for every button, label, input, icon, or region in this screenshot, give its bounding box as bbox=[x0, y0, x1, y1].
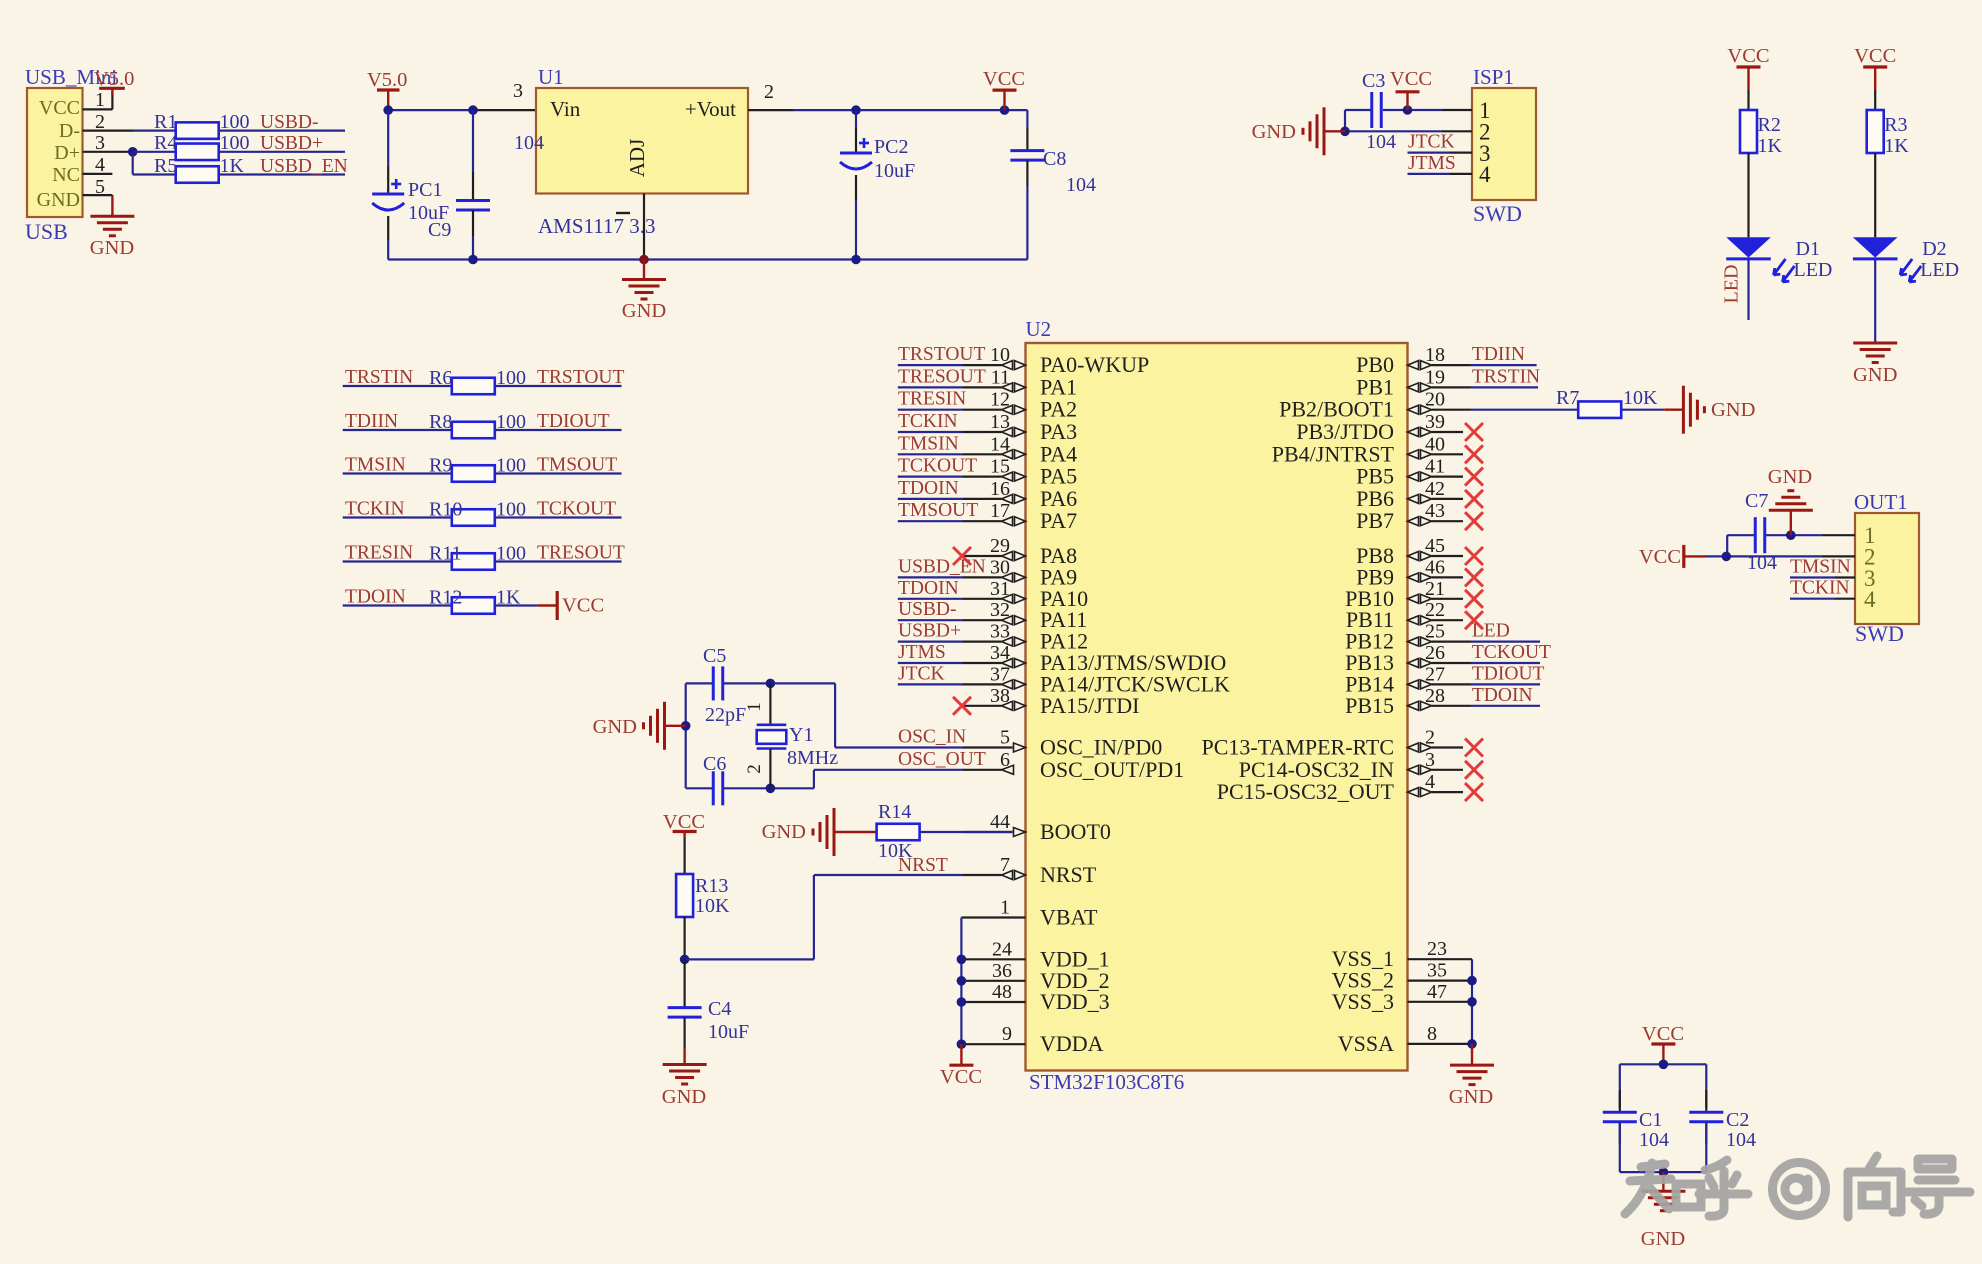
crystal Y1 8MHz bbox=[744, 683, 838, 788]
svg-text:104: 104 bbox=[1747, 552, 1777, 574]
svg-text:TCKIN: TCKIN bbox=[345, 499, 405, 520]
svg-text:GND: GND bbox=[1711, 399, 1755, 421]
junction VCC at OUT1 bbox=[1722, 552, 1732, 562]
svg-text:R5: R5 bbox=[154, 155, 177, 177]
svg-text:TDOIN: TDOIN bbox=[345, 587, 406, 608]
junction VDD_2 bbox=[957, 976, 967, 986]
junction C9 bottom bbox=[468, 255, 478, 265]
net label JTMS at U2 pin 34 bbox=[898, 642, 946, 663]
U2 pin 20 (PB2/BOOT1) bbox=[1279, 389, 1470, 422]
wire USBD_EN net bbox=[219, 173, 345, 175]
wire TRESOUT net at U2 pin 11 bbox=[898, 386, 963, 388]
wire PB2/BOOT1 to R7 bbox=[1471, 409, 1579, 411]
capacitor PC1 (10uF electrolytic) bbox=[372, 110, 449, 259]
svg-text:TMSIN: TMSIN bbox=[345, 455, 406, 476]
svg-text:GND: GND bbox=[622, 300, 666, 322]
resistor R8 bbox=[429, 411, 526, 438]
svg-text:TMSOUT: TMSOUT bbox=[898, 500, 978, 521]
no-connect X on pin 2 bbox=[1465, 739, 1483, 757]
net label TRSTOUT bbox=[537, 367, 624, 388]
svg-text:R8: R8 bbox=[429, 411, 452, 433]
svg-text:35: 35 bbox=[1427, 960, 1447, 982]
svg-text:VCC: VCC bbox=[1390, 68, 1432, 90]
U2 pin 27 (PB14) bbox=[1345, 663, 1470, 696]
svg-text:PB7: PB7 bbox=[1356, 508, 1394, 533]
U2 pin 30 (PA9) bbox=[963, 556, 1077, 589]
wire TCKIN net at U2 pin 13 bbox=[898, 431, 963, 433]
svg-text:TDOIN: TDOIN bbox=[898, 478, 959, 499]
U2 pin 42 (PB6) bbox=[1356, 478, 1463, 511]
svg-text:GND: GND bbox=[762, 821, 806, 843]
resistor R12 bbox=[429, 587, 521, 614]
U2 pin 6 (OSC_OUT/PD1) bbox=[963, 749, 1184, 782]
wire C1/C2 top rail bbox=[1620, 1064, 1707, 1108]
capacitor C3 (104) bbox=[1362, 70, 1396, 153]
wire TRESOUT net bbox=[495, 560, 622, 562]
U1 pin name Vin bbox=[550, 97, 581, 121]
U1 pin 3 number bbox=[513, 80, 523, 102]
wire R2 to D1 bbox=[1747, 153, 1749, 238]
net label JTCK at ISP1 bbox=[1408, 132, 1455, 153]
U2 pin 48 (VDD_3) bbox=[961, 981, 1109, 1014]
svg-text:R13: R13 bbox=[695, 875, 728, 897]
connector USB (USB_Mini) body bbox=[25, 65, 117, 244]
svg-text:R10: R10 bbox=[429, 499, 462, 521]
net label TMSIN at OUT1 bbox=[1790, 557, 1851, 578]
svg-text:USBD_EN: USBD_EN bbox=[260, 156, 348, 177]
svg-text:8MHz: 8MHz bbox=[787, 747, 838, 769]
junction crystal top bbox=[766, 679, 776, 689]
svg-text:PB6: PB6 bbox=[1356, 486, 1394, 511]
capacitor C6 (22pF) bbox=[703, 753, 726, 805]
net label TCKIN bbox=[345, 499, 405, 520]
junction NRST/C4 bbox=[680, 955, 690, 965]
svg-text:104: 104 bbox=[1366, 131, 1396, 153]
wire V5.0 rail bbox=[388, 109, 536, 111]
svg-text:BOOT0: BOOT0 bbox=[1040, 819, 1111, 844]
wire from D+ junction down to R5 bbox=[133, 152, 176, 175]
capacitor C8 (104) bbox=[1010, 110, 1096, 259]
svg-text:GND: GND bbox=[1768, 466, 1812, 488]
net label USBD- at U2 pin 32 bbox=[898, 599, 957, 620]
svg-text:R11: R11 bbox=[429, 543, 462, 565]
svg-text:R14: R14 bbox=[878, 801, 911, 823]
U1 pin 2 wire to VCC rail bbox=[748, 109, 1027, 111]
svg-text:R9: R9 bbox=[429, 455, 452, 477]
U2 pin 44 (BOOT0) bbox=[963, 811, 1111, 844]
junction PC2 top bbox=[851, 105, 861, 115]
wire TCKOUT net at U2 pin 15 bbox=[898, 476, 963, 478]
wire VSS bus bbox=[1471, 959, 1473, 1044]
svg-text:TDIIN: TDIIN bbox=[345, 411, 398, 432]
power symbol VCC at R3 bbox=[1854, 45, 1896, 90]
U2 pin 7 (NRST) bbox=[963, 854, 1097, 887]
no-connect X on pin 43 bbox=[1465, 512, 1483, 530]
svg-text:36: 36 bbox=[992, 960, 1012, 982]
svg-text:VSSA: VSSA bbox=[1338, 1031, 1394, 1056]
U2 pin 16 (PA6) bbox=[963, 478, 1077, 511]
capacitor C2 (104) bbox=[1689, 1090, 1756, 1151]
junction C1/C2 GND bbox=[1659, 1167, 1669, 1177]
svg-text:SWD: SWD bbox=[1473, 201, 1522, 226]
OUT1 pin numbers bbox=[1864, 523, 1876, 612]
svg-text:LED: LED bbox=[1721, 265, 1743, 304]
junction V5.0/PC1 bbox=[383, 105, 393, 115]
net label TDIOUT bbox=[537, 411, 610, 432]
svg-text:TDIOUT: TDIOUT bbox=[1472, 663, 1545, 684]
svg-text:1K: 1K bbox=[1884, 135, 1909, 157]
U1 ADJ pin wire bbox=[643, 194, 645, 260]
svg-text:VCC: VCC bbox=[1639, 546, 1681, 568]
U2 pin 38 (PA15/JTDI) bbox=[963, 685, 1139, 718]
capacitor C5 (22pF) bbox=[703, 645, 746, 726]
svg-text:47: 47 bbox=[1427, 981, 1447, 1003]
wire NRST net bbox=[685, 875, 963, 959]
svg-text:D2: D2 bbox=[1922, 238, 1946, 260]
no-connect X on pin 38 bbox=[953, 697, 971, 715]
wire VCC to R13 bbox=[683, 838, 685, 875]
net label TMSIN bbox=[345, 455, 406, 476]
wire D- net bbox=[133, 130, 176, 132]
svg-text:23: 23 bbox=[1427, 938, 1447, 960]
OUT1 pin 1 wire bbox=[1727, 534, 1855, 536]
wire crystal bottom node bbox=[686, 770, 963, 789]
power symbol VCC at R2 bbox=[1727, 45, 1769, 90]
svg-text:USB: USB bbox=[25, 219, 68, 244]
wire TRSTIN net bbox=[1471, 386, 1539, 388]
connector OUT1 (SWD) body bbox=[1854, 490, 1919, 646]
watermark bbox=[1625, 1156, 1970, 1217]
net label TMSIN at U2 pin 14 bbox=[898, 433, 959, 454]
U2 pin 35 (VSS_2) bbox=[1332, 960, 1472, 993]
wire TMSOUT net bbox=[495, 472, 622, 474]
svg-text:10K: 10K bbox=[878, 840, 913, 862]
svg-text:USBD+: USBD+ bbox=[260, 133, 323, 154]
U2 pin 25 (PB12) bbox=[1345, 621, 1470, 654]
svg-text:TRESIN: TRESIN bbox=[345, 543, 413, 564]
wire TMSOUT net at U2 pin 17 bbox=[898, 520, 963, 522]
svg-text:GND: GND bbox=[37, 189, 80, 211]
svg-text:4: 4 bbox=[95, 154, 105, 176]
wire TDOIN net at U2 pin 16 bbox=[898, 498, 963, 500]
OUT1 pin 3 wire bbox=[1790, 576, 1855, 578]
net label TCKOUT bbox=[537, 499, 616, 520]
svg-text:VCC: VCC bbox=[1854, 45, 1896, 67]
svg-text:3: 3 bbox=[513, 80, 523, 102]
junction GND at OUT1 bbox=[1786, 530, 1796, 540]
junction on D+ node bbox=[128, 147, 138, 157]
svg-text:1: 1 bbox=[744, 702, 765, 712]
ground symbol at USB pin 5 bbox=[90, 195, 135, 259]
power symbol VCC at R12 bbox=[537, 591, 604, 620]
svg-text:5: 5 bbox=[1000, 727, 1010, 749]
svg-text:PB5: PB5 bbox=[1356, 464, 1394, 489]
wire TMSIN net at U2 pin 14 bbox=[898, 453, 963, 455]
svg-text:27: 27 bbox=[1425, 663, 1445, 685]
wire TRSTOUT net at U2 pin 10 bbox=[898, 364, 963, 366]
svg-text:18: 18 bbox=[1425, 344, 1445, 366]
svg-text:20: 20 bbox=[1425, 389, 1445, 411]
svg-text:TRSTOUT: TRSTOUT bbox=[537, 367, 624, 388]
net label NRST bbox=[898, 855, 948, 876]
svg-text:+Vout: +Vout bbox=[685, 97, 736, 121]
net label OSC_OUT bbox=[898, 749, 986, 770]
resistor R3 (1K) bbox=[1867, 110, 1910, 157]
svg-text:NRST: NRST bbox=[1040, 862, 1097, 887]
U2 pin 9 (VDDA) bbox=[961, 1023, 1103, 1056]
ground symbol at R14 bbox=[762, 808, 876, 856]
U2 pin 17 (PA7) bbox=[963, 500, 1077, 533]
svg-text:VCC: VCC bbox=[983, 68, 1025, 90]
wire BOOT0 bbox=[920, 831, 1013, 833]
svg-text:PB1: PB1 bbox=[1356, 374, 1394, 399]
power symbol VCC at R13 bbox=[663, 811, 705, 838]
net label TDOIN at U2 pin 28 bbox=[1472, 685, 1533, 706]
svg-text:PB0: PB0 bbox=[1356, 352, 1394, 377]
svg-text:USBD-: USBD- bbox=[898, 599, 957, 620]
wire LED net at U2 pin 25 bbox=[1471, 640, 1541, 642]
svg-text:PC15-OSC32_OUT: PC15-OSC32_OUT bbox=[1217, 779, 1395, 804]
svg-text:TMSIN: TMSIN bbox=[898, 433, 959, 454]
net label USBD- bbox=[260, 112, 319, 133]
net label TRESOUT bbox=[537, 543, 625, 564]
wire TDOIN net at U2 pin 31 bbox=[898, 598, 963, 600]
capacitor PC2 (10uF electrolytic) bbox=[840, 110, 915, 259]
svg-text:PA1: PA1 bbox=[1040, 374, 1077, 399]
OUT1 pin 2 wire bbox=[1705, 555, 1855, 557]
svg-text:OSC_IN/PD0: OSC_IN/PD0 bbox=[1040, 735, 1162, 760]
power symbol V5.0 at USB bbox=[94, 68, 134, 95]
svg-text:PB4/JNTRST: PB4/JNTRST bbox=[1272, 441, 1395, 466]
svg-text:PA4: PA4 bbox=[1040, 441, 1077, 466]
ISP1 pin 3 wire bbox=[1408, 152, 1473, 154]
junction C1/C2 VCC bbox=[1659, 1060, 1669, 1070]
svg-text:PB2/BOOT1: PB2/BOOT1 bbox=[1279, 397, 1394, 422]
net label TCKIN at OUT1 bbox=[1790, 578, 1850, 599]
resistor R9 bbox=[429, 455, 526, 482]
wire TDIIN net bbox=[343, 429, 452, 431]
net label JTMS at ISP1 bbox=[1408, 153, 1456, 174]
U2 pin 36 (VDD_2) bbox=[961, 960, 1109, 993]
svg-text:TRESIN: TRESIN bbox=[898, 389, 966, 410]
svg-text:TCKOUT: TCKOUT bbox=[537, 499, 616, 520]
svg-text:TRSTIN: TRSTIN bbox=[1472, 366, 1540, 387]
svg-text:2: 2 bbox=[764, 81, 774, 103]
USB pin 4 stub (NC) bbox=[83, 173, 113, 175]
svg-text:SWD: SWD bbox=[1855, 621, 1904, 646]
wire D1 LED net bbox=[1747, 259, 1749, 320]
wire TRESIN net at U2 pin 12 bbox=[898, 409, 963, 411]
wire TDOIN net at U2 pin 28 bbox=[1471, 705, 1541, 707]
ground symbol at crystal bbox=[593, 702, 686, 750]
svg-text:TDOIN: TDOIN bbox=[898, 578, 959, 599]
svg-text:TCKIN: TCKIN bbox=[898, 411, 958, 432]
net label USBD+ at U2 pin 33 bbox=[898, 621, 961, 642]
svg-text:LED: LED bbox=[1794, 259, 1833, 281]
wire USBD_EN net at U2 pin 30 bbox=[898, 576, 963, 578]
svg-text:10uF: 10uF bbox=[874, 160, 915, 182]
svg-text:1: 1 bbox=[1000, 897, 1010, 919]
wire R12 to VCC bbox=[495, 604, 538, 606]
svg-text:44: 44 bbox=[990, 811, 1010, 833]
wire crystal top node bbox=[686, 683, 963, 747]
wire TCKOUT net at U2 pin 26 bbox=[1471, 662, 1541, 664]
U2 pin 26 (PB13) bbox=[1345, 642, 1470, 675]
ground symbol under VSS bus bbox=[1449, 1044, 1494, 1108]
svg-text:AMS1117 3.3: AMS1117 3.3 bbox=[538, 214, 655, 238]
svg-text:C8: C8 bbox=[1043, 148, 1066, 170]
resistor R1 bbox=[154, 111, 250, 139]
U2 pin 1 (VBAT) bbox=[961, 897, 1098, 930]
wire D2 to ground bbox=[1874, 259, 1876, 343]
svg-text:GND: GND bbox=[1252, 121, 1296, 143]
svg-text:4: 4 bbox=[1479, 162, 1491, 187]
resistor R7 (10K) bbox=[1556, 387, 1658, 418]
svg-text:8: 8 bbox=[1427, 1023, 1437, 1045]
wire VCC to R2 bbox=[1747, 90, 1749, 110]
svg-text:PC14-OSC32_IN: PC14-OSC32_IN bbox=[1239, 757, 1394, 782]
svg-text:C9: C9 bbox=[428, 219, 451, 241]
ISP1 pin numbers bbox=[1479, 98, 1491, 187]
svg-text:2: 2 bbox=[744, 764, 765, 774]
U2 pin 21 (PB10) bbox=[1345, 578, 1463, 611]
wire C7 corner bbox=[1726, 535, 1728, 556]
svg-text:10K: 10K bbox=[695, 895, 730, 917]
net label LED (rotated) at D1 bbox=[1721, 265, 1743, 304]
svg-text:104: 104 bbox=[1066, 174, 1096, 196]
net label OSC_IN bbox=[898, 727, 966, 748]
wire TCKIN net bbox=[343, 516, 452, 518]
U2 pin 8 (VSSA) bbox=[1338, 1023, 1472, 1056]
svg-text:LED: LED bbox=[1920, 259, 1959, 281]
no-connect X on pin 22 bbox=[1465, 611, 1483, 629]
net label TRSTOUT at U2 pin 10 bbox=[898, 344, 985, 365]
U2 pin 29 (PA8) bbox=[963, 535, 1077, 568]
wire JTCK net at U2 pin 37 bbox=[898, 683, 963, 685]
svg-text:TMSOUT: TMSOUT bbox=[537, 455, 617, 476]
junction crystal gnd bbox=[681, 721, 691, 731]
junction GND at ISP1 bbox=[1340, 127, 1350, 137]
wire R3 to D2 bbox=[1874, 153, 1876, 238]
net label USBD_EN at U2 pin 30 bbox=[898, 556, 986, 577]
no-connect X on pin 29 bbox=[953, 547, 971, 565]
svg-text:VBAT: VBAT bbox=[1040, 905, 1098, 930]
no-connect X on pin 46 bbox=[1465, 568, 1483, 586]
svg-text:OSC_OUT: OSC_OUT bbox=[898, 749, 986, 770]
svg-text:USBD+: USBD+ bbox=[898, 621, 961, 642]
svg-text:PC13-TAMPER-RTC: PC13-TAMPER-RTC bbox=[1202, 735, 1395, 760]
svg-text:C3: C3 bbox=[1362, 70, 1385, 92]
ground symbol at OUT1 bbox=[1768, 466, 1813, 535]
wire D+ net bbox=[133, 151, 176, 153]
svg-text:GND: GND bbox=[1641, 1228, 1685, 1250]
svg-text:22pF: 22pF bbox=[705, 704, 746, 726]
svg-text:VCC: VCC bbox=[940, 1066, 982, 1088]
svg-text:40: 40 bbox=[1425, 433, 1445, 455]
svg-text:4: 4 bbox=[1864, 587, 1876, 612]
svg-text:VCC: VCC bbox=[1727, 45, 1769, 67]
svg-text:U1: U1 bbox=[538, 65, 564, 89]
svg-text:OSC_OUT/PD1: OSC_OUT/PD1 bbox=[1040, 757, 1184, 782]
U2 pin 11 (PA1) bbox=[963, 366, 1077, 399]
svg-text:TCKIN: TCKIN bbox=[1790, 578, 1850, 599]
svg-text:PA2: PA2 bbox=[1040, 397, 1077, 422]
junction PC2 bottom bbox=[851, 255, 861, 265]
net label JTCK at U2 pin 37 bbox=[898, 663, 945, 684]
net label TCKIN at U2 pin 13 bbox=[898, 411, 958, 432]
svg-text:TDIOUT: TDIOUT bbox=[537, 411, 610, 432]
power symbol VCC at regulator output bbox=[983, 68, 1025, 110]
svg-text:R12: R12 bbox=[429, 587, 462, 609]
svg-text:STM32F103C8T6: STM32F103C8T6 bbox=[1029, 1070, 1184, 1094]
junction VCC at ISP1 bbox=[1403, 105, 1413, 115]
svg-text:R7: R7 bbox=[1556, 387, 1579, 409]
svg-text:10uF: 10uF bbox=[708, 1021, 749, 1043]
resistor R5 bbox=[154, 155, 245, 183]
svg-text:48: 48 bbox=[992, 981, 1012, 1003]
svg-text:TRSTOUT: TRSTOUT bbox=[898, 344, 985, 365]
U2 pin 32 (PA11) bbox=[963, 599, 1087, 632]
svg-text:TCKOUT: TCKOUT bbox=[898, 456, 977, 477]
svg-text:24: 24 bbox=[992, 938, 1012, 960]
svg-text:TDIIN: TDIIN bbox=[1472, 344, 1525, 365]
U1 pin name ADJ (rotated) bbox=[625, 139, 649, 178]
net label TRESOUT at U2 pin 11 bbox=[898, 366, 986, 387]
U2 pin 5 (OSC_IN/PD0) bbox=[963, 727, 1162, 760]
svg-text:C1: C1 bbox=[1639, 1109, 1662, 1131]
svg-text:LED: LED bbox=[1472, 621, 1510, 642]
power symbol VCC under VDD bus bbox=[940, 1044, 982, 1088]
net label TMSOUT bbox=[537, 455, 617, 476]
ISP1 pin 1 wire bbox=[1383, 109, 1472, 111]
capacitor C1 (104) bbox=[1603, 1090, 1669, 1151]
svg-text:C5: C5 bbox=[703, 645, 726, 667]
USB pin 5 stub bbox=[83, 194, 113, 196]
junction VSS_2 bbox=[1467, 976, 1477, 986]
U2 pin 37 (PA14/JTCK/SWCLK) bbox=[963, 663, 1230, 696]
U2 pin 31 (PA10) bbox=[963, 578, 1088, 611]
svg-text:C2: C2 bbox=[1726, 1109, 1749, 1131]
LED D1 bbox=[1726, 237, 1832, 282]
resistor R6 bbox=[429, 367, 526, 394]
USB pin 3 stub bbox=[83, 151, 134, 153]
power symbol VCC at OUT1 bbox=[1639, 545, 1705, 568]
wire USBD- net at U2 pin 32 bbox=[898, 619, 963, 621]
net label TDIIN bbox=[1472, 344, 1525, 365]
svg-text:GND: GND bbox=[90, 237, 134, 259]
connector ISP1 (SWD) body bbox=[1472, 65, 1536, 226]
no-connect X on pin 41 bbox=[1465, 468, 1483, 486]
svg-text:PB15: PB15 bbox=[1345, 693, 1394, 718]
U2 pin 40 (PB4/JNTRST) bbox=[1272, 433, 1463, 466]
svg-text:V5.0: V5.0 bbox=[367, 69, 407, 91]
svg-text:41: 41 bbox=[1425, 456, 1445, 478]
resistor R14 (10K) bbox=[877, 801, 920, 862]
resistor R10 bbox=[429, 499, 526, 526]
net label TDOIN at U2 pin 31 bbox=[898, 578, 959, 599]
junction VDD_1 bbox=[957, 955, 967, 965]
net label TDOIN at U2 pin 16 bbox=[898, 478, 959, 499]
regulator U1 AMS1117-3.3 body bbox=[536, 65, 748, 238]
no-connect X on pin 21 bbox=[1465, 590, 1483, 608]
svg-text:R3: R3 bbox=[1884, 114, 1907, 136]
svg-text:JTMS: JTMS bbox=[898, 642, 946, 663]
svg-text:VCC: VCC bbox=[663, 811, 705, 833]
wire TMSIN net bbox=[343, 472, 452, 474]
no-connect X on pin 40 bbox=[1465, 445, 1483, 463]
svg-text:TCKOUT: TCKOUT bbox=[1472, 642, 1551, 663]
wire TRESIN net bbox=[343, 560, 452, 562]
